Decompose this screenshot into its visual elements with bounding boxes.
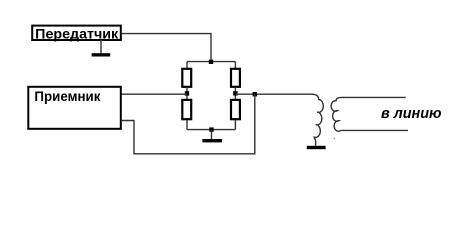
block U1 Передатчик (transmitter) [32,26,121,42]
inductor L1 transformer primary winding [312,94,324,146]
wire: bridge bottom horizontal [187,129,235,131]
svg-text:Приемник: Приемник [34,89,100,104]
wire: node C to transformer primary [235,93,313,95]
node D (junction to bottom return wire) [253,92,257,96]
svg-text:в линию: в линию [381,105,442,122]
wire: receiver output to node B [121,93,187,95]
wire stub: R1 to left mid node [186,88,188,101]
ground GND3 under primary winding [307,146,326,149]
node E (bridge bottom junction) [209,127,213,131]
svg-text:Передатчик: Передатчик [35,27,118,42]
node B (left mid junction) [185,91,189,95]
node C (right mid junction) [233,91,237,95]
wire stub: R3 to bridge bottom [186,120,188,130]
ground GND2 under bridge [202,130,222,143]
node A (bridge top junction) [209,60,213,64]
wire: transmitter output to bridge top [122,34,212,62]
block U2 Приемник (receiver) [28,87,121,129]
wire stub: top wire to R2 [234,62,236,68]
resistor R3 (lower left) [182,100,191,119]
wire stub: top wire to R1 [186,62,188,68]
resistor R2 (upper right) [231,69,240,87]
ground GND1 under transmitter [92,40,111,57]
wire stub: R4 to bridge bottom [234,120,236,130]
inductor L2 transformer secondary winding [331,97,408,131]
wire: receiver lower output, down and along bottom to node D [121,94,255,154]
resistor R4 (lower right) [231,100,240,119]
wire: bridge top horizontal [187,61,235,63]
resistor R1 (upper left) [182,69,191,87]
wire stub: R2 to right mid node [234,88,236,101]
stray speck artifact [334,138,336,139]
